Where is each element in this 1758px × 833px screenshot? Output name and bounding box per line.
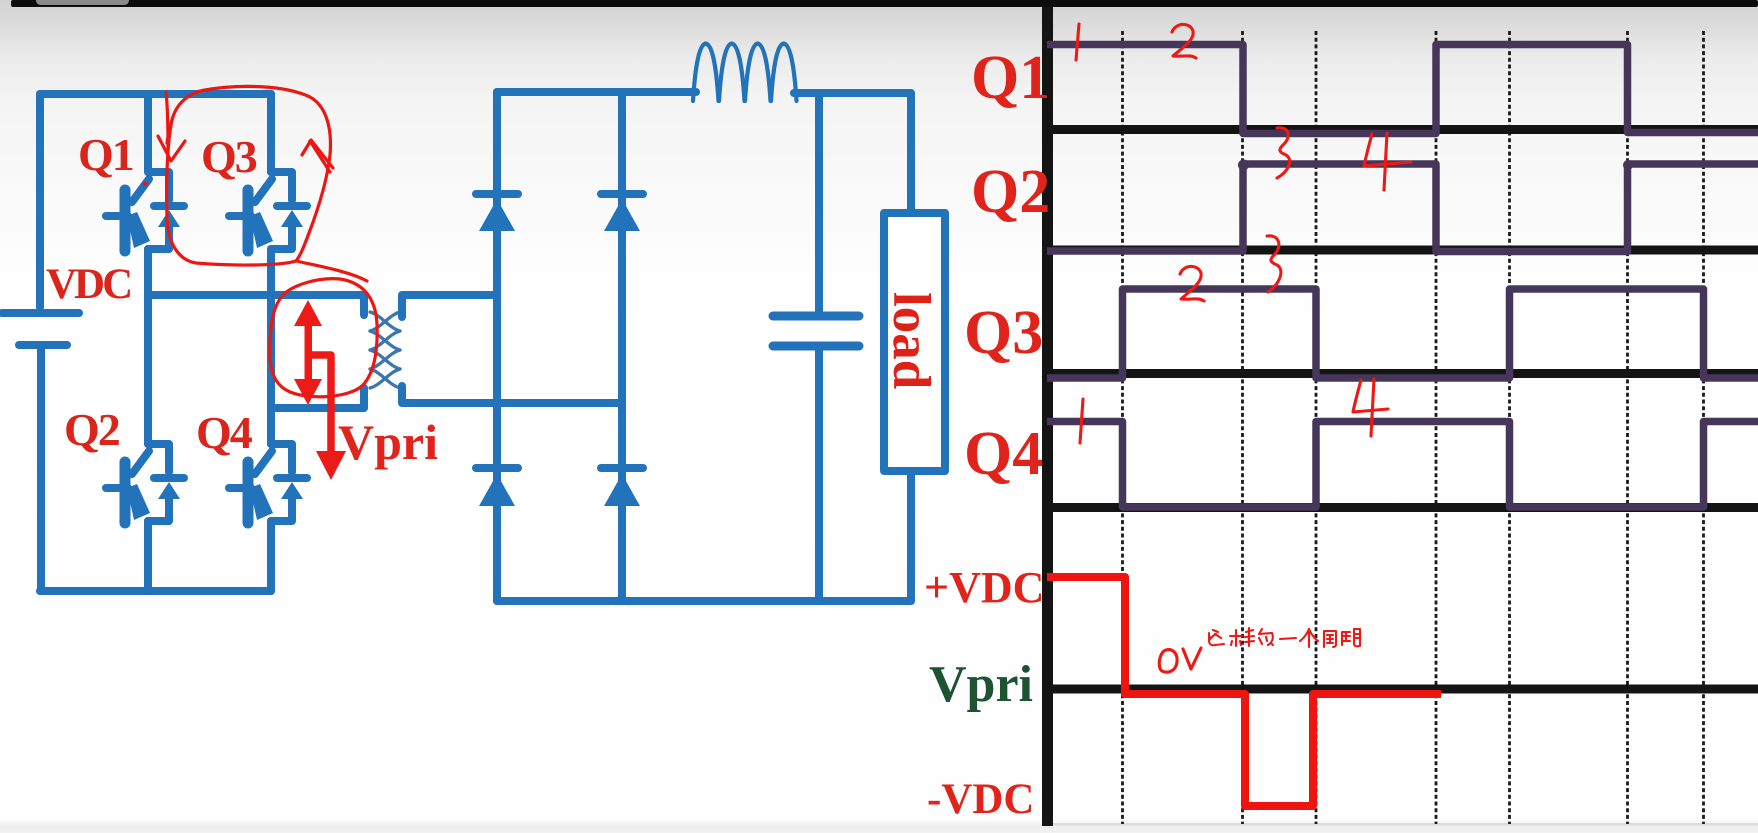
svg-text:Q2: Q2 [971,158,1050,226]
svg-text:Q4: Q4 [196,407,253,458]
handwritten red loop around transformer arrow [270,279,377,397]
transformer secondary stubs and wires [402,295,622,403]
waveform Vpri (red) [1047,577,1441,806]
digit 3 (interval 3, Q3) [1267,236,1281,292]
diode D3 (lower-left) [476,468,518,506]
red loop tail to lower loop [296,261,367,281]
capacitor C1 [773,93,859,601]
svg-text:Vpri: Vpri [929,656,1033,713]
digit 2 (interval 2, Q1) [1172,24,1196,58]
digit 3 (interval 3, Q2) [1277,128,1290,178]
wire bridge bottom rail [497,597,911,605]
wire primary top rail [40,94,271,100]
svg-text:load: load [882,292,940,389]
wire bridge left leg [493,92,501,601]
svg-text:VDC: VDC [46,261,130,308]
waveform Q2 (purple) [1047,164,1758,252]
digit 1 (interval 1, Q4) [1080,399,1083,443]
battery VDC bottom plate [19,341,67,349]
dashed gridlines [1123,31,1704,824]
wire leg Q2 bottom [144,521,152,591]
diode D4 (lower-right) [601,468,643,506]
svg-text:-VDC: -VDC [927,776,1034,823]
transistor Q1 [106,172,184,251]
wire primary bottom rail [40,587,271,595]
svg-text:Q1: Q1 [78,129,133,180]
svg-text:Q2: Q2 [64,404,120,455]
svg-text:Q3: Q3 [964,299,1043,367]
transistor Q2 [106,444,184,523]
wire leg Q4 bottom [267,521,275,591]
waveform Q3 (purple) [1047,289,1758,378]
top window bar [11,0,1758,7]
svg-text:Q4: Q4 [964,420,1043,488]
resistor load [882,213,945,601]
baseline Q3 [1042,369,1758,378]
baseline Q2 [1042,246,1758,255]
wire node B lower rail to transformer [271,388,364,408]
digit 4 (interval 4, Q4) [1353,379,1388,436]
baseline Q4 [1042,503,1758,512]
inductor L1 [693,44,797,102]
wire left battery branch upper [36,94,44,307]
battery VDC top plate [2,309,79,317]
diode D2 (upper-right) [601,194,643,231]
handwriting 这样为一个周期 (Chinese annotation) [1209,628,1360,647]
bottom faint line [1042,823,1758,826]
wire leg Q3-Q4 middle [267,249,275,444]
digit 2 (interval 2, Q3) [1180,266,1204,301]
handwriting 0V [1159,650,1177,673]
waveform Q2 corner dots [1238,160,1249,171]
red double arrow (primary voltage) [294,300,322,405]
digit 4 (interval 4, Q2) [1364,133,1411,190]
handwritten digits [1076,24,1411,672]
waveform Q4 (purple) [1047,422,1758,508]
wire bridge right leg [618,92,626,601]
handwritten red loop around Q1/Q3 [158,86,377,396]
transistor Q3 [229,172,307,251]
svg-text:Q1: Q1 [971,44,1050,112]
red arrow (up) on loop [310,141,330,172]
baseline Q1 [1042,125,1758,134]
wire left battery branch lower [37,349,45,591]
red Vpri arrow with step [310,355,346,480]
baseline Vpri [1042,685,1758,694]
waveform Q1 (purple) [1047,45,1758,134]
red speck near Q1 [143,182,147,186]
wire leg Q3 top [267,94,275,172]
wire bridge top rail [497,92,696,100]
red check arrow (down) [166,92,168,148]
digit 1 (interval 1, Q1) [1076,24,1079,60]
svg-text:Q3: Q3 [201,131,257,182]
wire output top rail [794,93,911,213]
svg-text:Vpri: Vpri [338,414,438,470]
wire leg Q1-Q2 middle [144,249,152,444]
transistor Q4 [229,444,307,523]
chart axis [1042,7,1053,826]
svg-text:+VDC: +VDC [924,563,1044,612]
wire node A mid rail to transformer [148,295,364,315]
diode D1 (upper-left) [476,194,518,231]
wire leg Q1 top [144,94,152,172]
transformer T1 windings [370,312,400,388]
